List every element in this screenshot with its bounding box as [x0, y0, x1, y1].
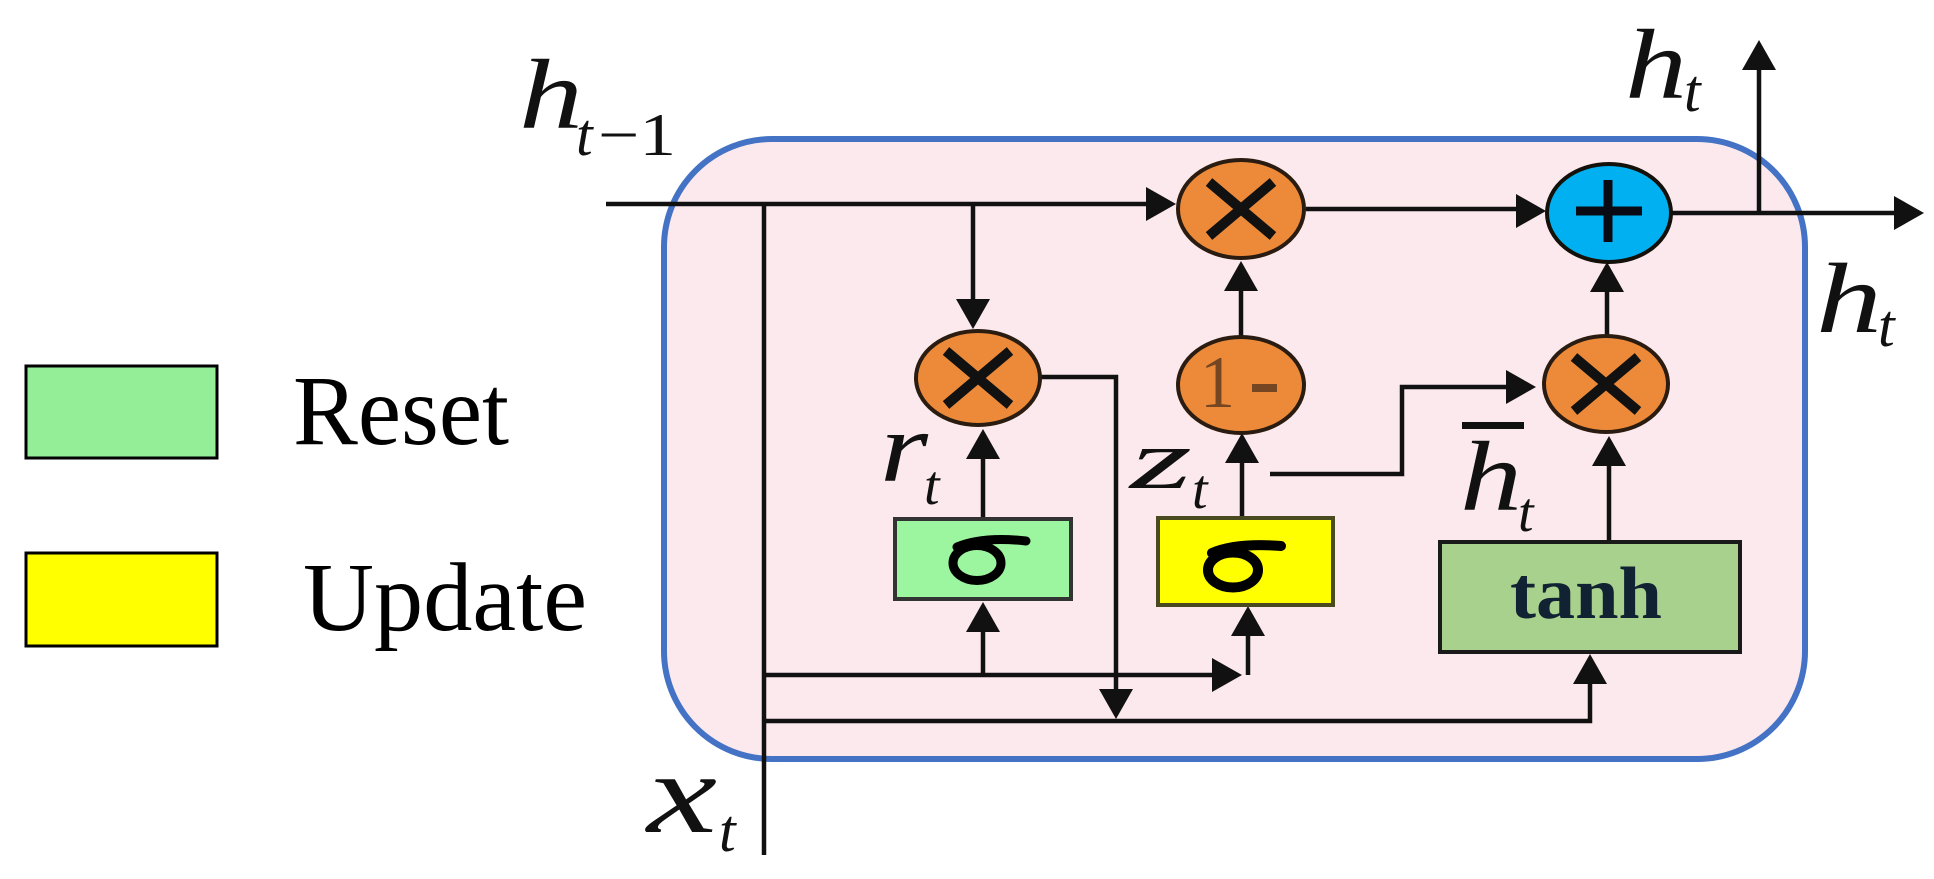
wire line2 x(t)/reset to tanh [764, 684, 1590, 721]
wire A1 output to right arrow h(t) [1671, 211, 1916, 216]
svg-text:t: t [1878, 293, 1896, 359]
add node A1 (blue plus) [1547, 164, 1671, 262]
arrowhead z(t) elbow into M3 [1506, 370, 1536, 404]
wire M1 output right then down to line2 [1040, 377, 1116, 690]
wire branch down from h line into multiply node M1 [971, 204, 976, 299]
label x(t) [644, 730, 737, 864]
legend swatch Reset (green) [26, 366, 217, 458]
arrowhead h(t) right output [1894, 196, 1924, 230]
tanh box [1440, 542, 1740, 652]
svg-text:h: h [1816, 243, 1882, 354]
wire h(t) output vertical axis [1757, 70, 1762, 213]
arrowhead M1 branch down onto line2 [1099, 689, 1133, 719]
wire line1 up-arrow into sigma(reset) box [981, 632, 986, 674]
svg-text:h: h [519, 39, 583, 150]
arrowhead M3 to A1 [1590, 262, 1624, 292]
GRU cell body (pink rounded rectangle) [664, 139, 1805, 759]
wire riser into sigma(update) box [1246, 636, 1251, 675]
arrowhead riser into sigma(update) box [1231, 606, 1265, 636]
multiply node M3 (z * h-tilde) [1544, 336, 1668, 432]
arrowhead sigma(update) to 1-minus [1225, 433, 1259, 463]
svg-text:Reset: Reset [293, 355, 509, 466]
wire tanh box up to M3 [1607, 466, 1612, 542]
label z(t) [1128, 413, 1209, 521]
arrowhead down into M1 [956, 299, 990, 329]
wire sigma(update) box up to 1-minus node [1240, 463, 1245, 518]
wire 1-minus node up to M2 [1239, 291, 1244, 337]
label h(t) top output [1625, 9, 1702, 124]
wire x(t) vertical input [762, 204, 767, 855]
arrowhead sigma(reset) to M1 [966, 429, 1000, 459]
arrowhead into A1 [1516, 194, 1546, 228]
arrowhead h(t) up output [1742, 40, 1776, 70]
label h-bar(t) [1460, 421, 1535, 544]
svg-text:h: h [1460, 421, 1522, 532]
arrowhead 1-minus to M2 [1224, 261, 1258, 291]
svg-text:z: z [1128, 413, 1192, 507]
multiply node M1 (reset gate product) [916, 331, 1040, 425]
svg-text:t: t [924, 455, 941, 517]
label r(t) [880, 392, 941, 517]
svg-text:−1: −1 [598, 102, 676, 168]
svg-text:t: t [719, 798, 737, 864]
arrowhead into sigma(reset) box [966, 602, 1000, 632]
wire z(t) elbow to M3 [1270, 387, 1506, 474]
arrowhead into M2 [1146, 187, 1176, 221]
svg-text:t: t [1518, 482, 1535, 544]
svg-text:t: t [576, 102, 594, 168]
multiply node M2 (z * h(t-1)) [1178, 160, 1304, 258]
label h(t) right output [1816, 243, 1896, 359]
arrowhead tanh to M3 [1592, 436, 1626, 466]
wire M2 to add node A1 [1306, 207, 1538, 212]
svg-text:x: x [644, 730, 717, 857]
svg-text:t: t [1192, 459, 1209, 521]
svg-text:tanh: tanh [1510, 553, 1662, 635]
legend swatch Update (yellow) [26, 553, 217, 646]
wire line1 x(t) to sigma boxes [764, 673, 1212, 678]
arrowhead line1 right toward update riser [1212, 658, 1242, 692]
svg-text:r: r [880, 392, 929, 503]
svg-text:Update: Update [303, 544, 587, 652]
wire sigma(reset) box up to M1 [981, 459, 986, 519]
svg-text:h: h [1625, 9, 1687, 120]
wire M3 up to add node A1 [1605, 292, 1610, 336]
node 1-minus [1178, 337, 1304, 433]
label h(t-1) [519, 39, 676, 168]
svg-text:t: t [1684, 58, 1702, 124]
wire h(t-1) input horizontal into multiply node M2 [606, 202, 1170, 207]
sigma box update gate (yellow) [1158, 518, 1333, 605]
svg-text:1: 1 [1200, 342, 1235, 424]
sigma box reset gate (green) [895, 519, 1071, 599]
arrowhead line2 riser into tanh [1573, 654, 1607, 684]
